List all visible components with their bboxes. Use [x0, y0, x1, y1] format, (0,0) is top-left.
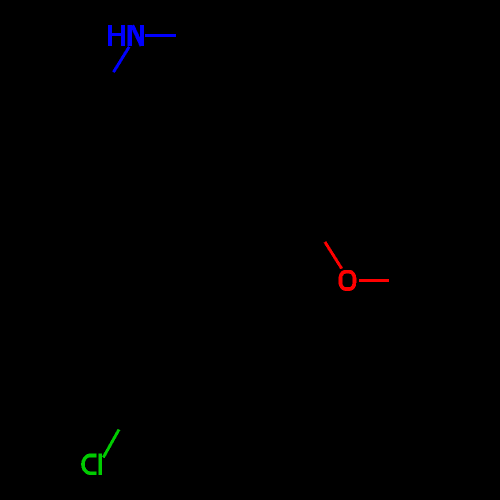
bond N-CH3 carbon half — [176, 34, 216, 37]
bond C-O carbon half — [302, 205, 326, 243]
bond C-O (oxygen half, red) — [325, 242, 342, 269]
bond C-Cl carbon half — [119, 394, 141, 430]
bond O-CH3 carbon half — [389, 279, 429, 282]
bond N-C carbon half — [91, 72, 114, 108]
bond N-CH3 (nitrogen half, blue) — [145, 34, 176, 37]
carbon skeleton (black bonds, invisible on black background) — [91, 36, 429, 430]
bond C-Cl (chlorine half, green) — [103, 430, 119, 458]
bond N-C ring (nitrogen half, blue) — [114, 47, 130, 72]
atom O label (red) — [341, 272, 355, 289]
atom Cl label: l glyph — [98, 453, 102, 475]
atom Cl label "Cl" (green): C glyph — [83, 455, 97, 473]
bond O-CH3 (oxygen half, red) — [359, 279, 389, 282]
atom N label "HN" (blue) — [108, 25, 144, 46]
